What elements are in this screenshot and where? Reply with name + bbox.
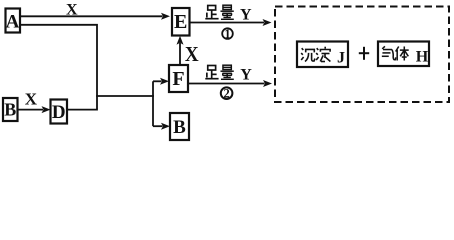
glyph 气: [382, 46, 396, 59]
dashed result box: [275, 7, 449, 103]
glyph 沉: [301, 48, 315, 61]
wire trunk to F/B branch: [96, 95, 154, 97]
label circled 2: [221, 87, 233, 101]
svg-text:F: F: [172, 68, 184, 90]
box D: [51, 100, 68, 124]
glyph 体: [396, 46, 409, 60]
label 足量 Y (2) : 足: [205, 65, 218, 78]
svg-text:Y: Y: [240, 67, 252, 84]
wire D to trunk: [67, 109, 98, 111]
svg-text:B: B: [173, 117, 186, 138]
wire into B2: [153, 125, 163, 127]
wire branch vertical F-B: [152, 81, 154, 126]
svg-text:1: 1: [224, 27, 230, 41]
box F: [169, 65, 188, 92]
box E: [172, 8, 190, 36]
label 足量 Y (2) : 量: [220, 65, 233, 79]
box B1: [3, 98, 18, 121]
wire into F: [153, 80, 162, 82]
box A: [6, 9, 21, 33]
wire A to trunk: [20, 25, 97, 109]
svg-text:X: X: [185, 42, 199, 66]
arrowhead up into E: [177, 36, 184, 45]
svg-text:2: 2: [223, 87, 229, 101]
svg-text:J: J: [337, 49, 345, 66]
box 气体 H: [378, 42, 429, 67]
svg-text:X: X: [66, 2, 78, 19]
label circled 1: [222, 27, 233, 41]
arrowhead into B2: [161, 123, 170, 130]
wire E to dashed box: [190, 22, 265, 24]
svg-text:B: B: [4, 100, 16, 120]
box 沉淀 J: [297, 42, 348, 68]
wire A to E (X line): [20, 15, 163, 17]
wire F to dashed box: [188, 83, 265, 85]
arrowhead into E: [161, 13, 170, 20]
svg-text:D: D: [52, 102, 66, 123]
svg-text:H: H: [416, 49, 429, 66]
wire B1 to D: [18, 109, 44, 111]
svg-text:Y: Y: [240, 7, 252, 24]
svg-text:A: A: [6, 11, 20, 32]
arrowhead into D: [42, 106, 51, 113]
glyph 淀: [316, 47, 330, 62]
arrowhead F arrow: [263, 80, 272, 87]
label 足量 Y (1) : 量: [220, 5, 233, 19]
label +: [359, 47, 369, 60]
svg-text:E: E: [174, 11, 187, 33]
label 足量 Y (1) : 足: [205, 5, 218, 18]
svg-text:X: X: [25, 89, 38, 108]
box B2: [170, 113, 189, 140]
arrowhead E arrow: [263, 19, 272, 26]
arrowhead into F: [160, 78, 169, 85]
wire F up to E: [179, 43, 181, 65]
